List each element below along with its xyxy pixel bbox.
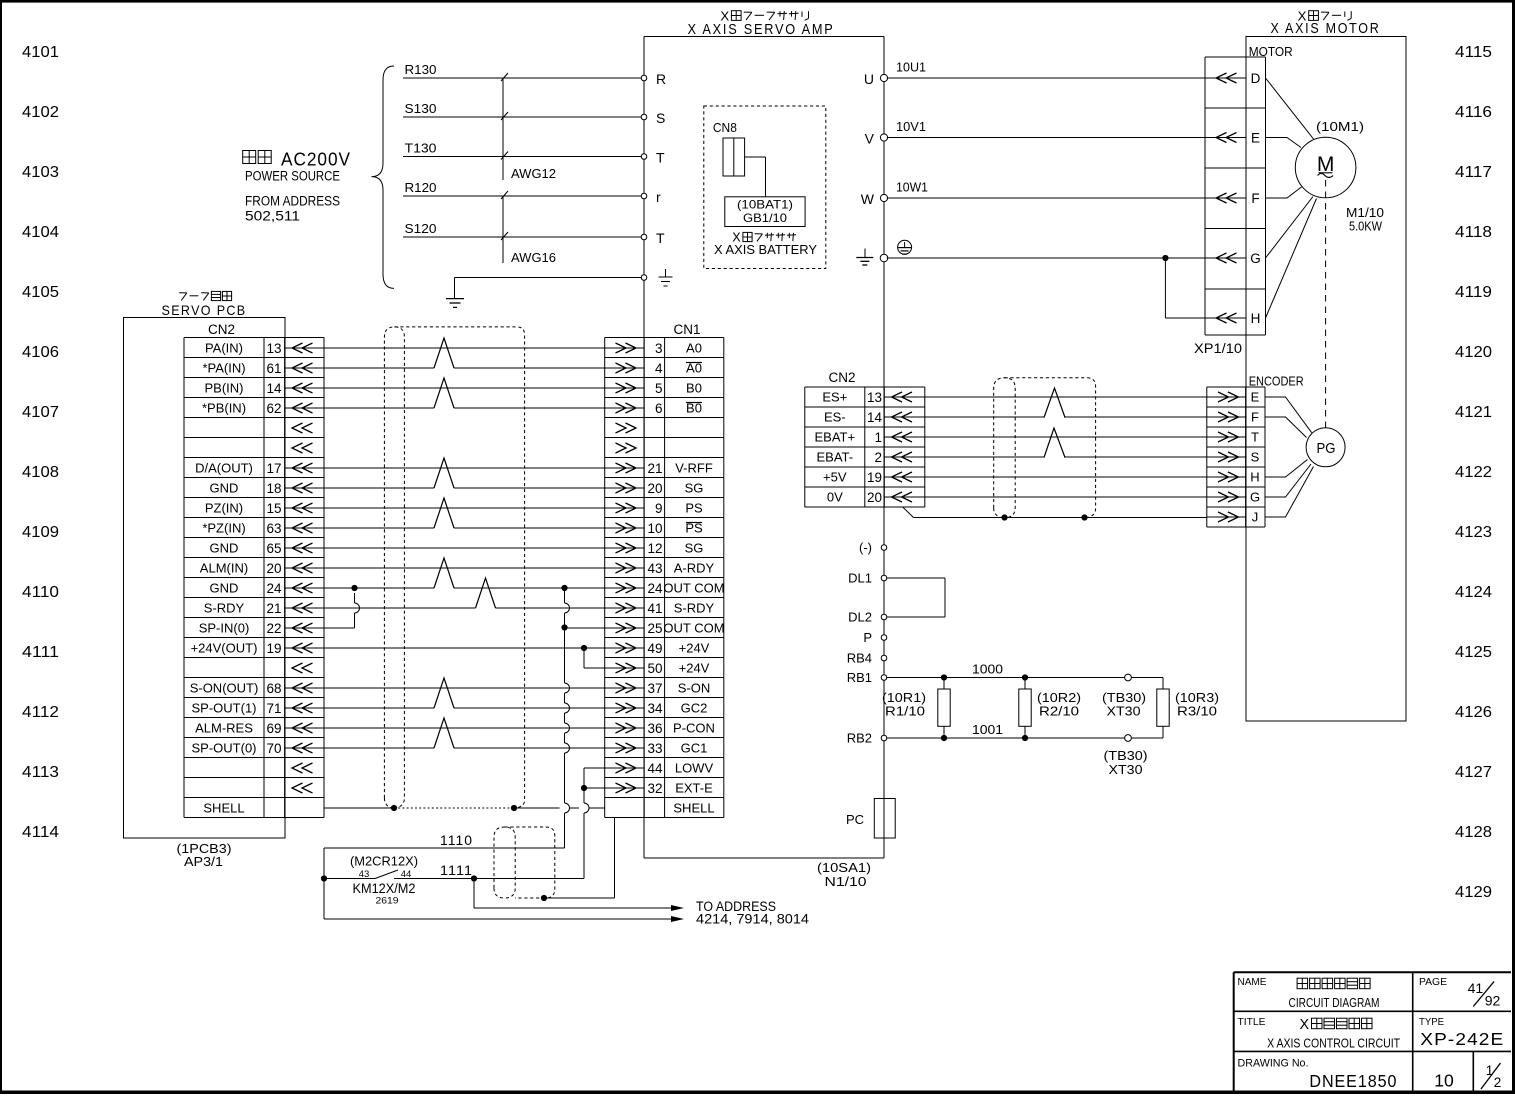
svg-text:21: 21 bbox=[647, 461, 662, 476]
svg-text:20: 20 bbox=[867, 490, 882, 505]
dashed shaft M to PG bbox=[1325, 180, 1327, 428]
terminal P bbox=[863, 630, 886, 645]
svg-text:1111: 1111 bbox=[440, 862, 473, 878]
svg-text:(10SA1): (10SA1) bbox=[817, 860, 871, 875]
svg-text:18: 18 bbox=[266, 481, 281, 496]
svg-text:21: 21 bbox=[266, 601, 281, 616]
svg-text:65: 65 bbox=[266, 541, 281, 556]
svg-text:r: r bbox=[656, 189, 661, 205]
label (10R2) R2/10 bbox=[1037, 691, 1081, 719]
svg-text:GND: GND bbox=[210, 481, 239, 496]
svg-text:34: 34 bbox=[647, 701, 663, 716]
svg-text:U: U bbox=[864, 71, 874, 87]
svg-text:P-CON: P-CON bbox=[673, 721, 715, 736]
svg-text:5: 5 bbox=[655, 381, 663, 396]
label X axis motor (JP) bbox=[1298, 8, 1352, 23]
svg-text:4103: 4103 bbox=[22, 164, 59, 181]
svg-text:S: S bbox=[1251, 450, 1260, 465]
wire SHELL net bbox=[324, 805, 605, 811]
svg-text:4114: 4114 bbox=[22, 824, 59, 841]
svg-text:SP-IN(0): SP-IN(0) bbox=[199, 621, 250, 636]
svg-text:4104: 4104 bbox=[22, 224, 59, 241]
terminal RB2 bbox=[847, 731, 887, 746]
svg-text:17: 17 bbox=[266, 461, 281, 476]
label N1/10 bbox=[825, 874, 867, 889]
svg-text:4122: 4122 bbox=[1455, 464, 1492, 481]
twisted pair marks encoder bbox=[1044, 388, 1065, 458]
svg-text:10: 10 bbox=[1434, 1071, 1454, 1091]
svg-text:4124: 4124 bbox=[1455, 584, 1492, 601]
svg-text:36: 36 bbox=[647, 721, 662, 736]
svg-text:LOWV: LOWV bbox=[675, 761, 714, 776]
connector CN1 row labels and arrows bbox=[605, 341, 725, 816]
right grid line numbers 4115-4129 bbox=[1455, 44, 1492, 901]
label CN2 left bbox=[208, 322, 235, 337]
svg-text:S-ON(OUT): S-ON(OUT) bbox=[190, 681, 259, 696]
svg-text:SP-OUT(1): SP-OUT(1) bbox=[192, 701, 257, 716]
svg-text:(M2CR12X): (M2CR12X) bbox=[350, 854, 418, 869]
svg-text:25: 25 bbox=[647, 621, 662, 636]
svg-text:4125: 4125 bbox=[1455, 644, 1492, 661]
svg-text:4120: 4120 bbox=[1455, 344, 1492, 361]
svg-text:X: X bbox=[1299, 1017, 1309, 1033]
brace power source group bbox=[372, 66, 395, 288]
svg-text:T130: T130 bbox=[405, 141, 437, 156]
svg-text:PA(IN): PA(IN) bbox=[205, 341, 243, 356]
svg-text:10V1: 10V1 bbox=[896, 119, 926, 134]
wire W 10W1 bbox=[861, 180, 1205, 208]
label CN2 right bbox=[829, 370, 856, 385]
svg-text:4116: 4116 bbox=[1455, 104, 1492, 121]
label KM12X/M2 bbox=[353, 881, 416, 896]
svg-text:4128: 4128 bbox=[1455, 824, 1492, 841]
ground symbol amp right bbox=[856, 249, 873, 266]
svg-text:PC: PC bbox=[846, 812, 864, 827]
svg-text:XP1/10: XP1/10 bbox=[1194, 341, 1242, 356]
svg-text:20: 20 bbox=[647, 481, 662, 496]
label 電気回路線図 bbox=[1297, 978, 1370, 989]
svg-text:41: 41 bbox=[647, 601, 662, 616]
svg-text:E: E bbox=[1251, 390, 1260, 405]
svg-text:EBAT-: EBAT- bbox=[816, 450, 853, 465]
label (10M1) bbox=[1316, 119, 1364, 134]
wire U 10U1 bbox=[864, 60, 1205, 88]
svg-text:CN2: CN2 bbox=[829, 370, 856, 385]
svg-text:22: 22 bbox=[266, 621, 281, 636]
svg-text:*PB(IN): *PB(IN) bbox=[202, 401, 246, 416]
svg-text:1: 1 bbox=[874, 430, 882, 445]
terminal T2 bbox=[641, 230, 665, 246]
svg-text:R130: R130 bbox=[405, 62, 437, 77]
label XP1/10 bbox=[1194, 341, 1242, 356]
connector CN1 table grid bbox=[605, 338, 724, 818]
svg-text:41: 41 bbox=[1468, 980, 1484, 996]
terminal XT30 lower bbox=[1104, 735, 1148, 777]
label X軸バッテリ bbox=[732, 231, 796, 245]
svg-text:CN2: CN2 bbox=[208, 322, 235, 337]
left grid line numbers 4101-4114 bbox=[22, 44, 59, 841]
svg-text:+24V: +24V bbox=[679, 641, 710, 656]
svg-text:G: G bbox=[1250, 490, 1260, 505]
svg-text:3: 3 bbox=[655, 341, 663, 356]
label X AXIS CONTROL CIRCUIT bbox=[1267, 1036, 1400, 1051]
label page 41/92 bbox=[1468, 980, 1501, 1009]
svg-text:F: F bbox=[1251, 191, 1259, 206]
svg-text:20: 20 bbox=[266, 561, 281, 576]
svg-text:T: T bbox=[656, 230, 665, 246]
label FROM ADDRESS bbox=[245, 194, 340, 209]
svg-text:AWG16: AWG16 bbox=[511, 250, 556, 265]
terminal R bbox=[641, 71, 666, 87]
svg-text:24: 24 bbox=[266, 581, 282, 596]
svg-text:4112: 4112 bbox=[22, 704, 59, 721]
svg-text:R3/10: R3/10 bbox=[1177, 705, 1217, 719]
terminal PE bbox=[641, 275, 647, 281]
svg-text:4108: 4108 bbox=[22, 464, 59, 481]
svg-text:+24V(OUT): +24V(OUT) bbox=[191, 641, 258, 656]
svg-text:49: 49 bbox=[647, 641, 662, 656]
svg-text:4214, 7914, 8014: 4214, 7914, 8014 bbox=[696, 912, 810, 927]
svg-text:4105: 4105 bbox=[22, 284, 59, 301]
svg-text:+5V: +5V bbox=[823, 470, 847, 485]
svg-text:2: 2 bbox=[1494, 1075, 1502, 1090]
svg-text:S-RDY: S-RDY bbox=[674, 601, 715, 616]
resistor R2 bbox=[1019, 674, 1031, 741]
label (10R3) R3/10 bbox=[1175, 691, 1219, 719]
earth ground symbol bbox=[446, 299, 464, 308]
svg-text:S-RDY: S-RDY bbox=[204, 601, 245, 616]
wire 1110 bbox=[324, 832, 565, 848]
svg-text:37: 37 bbox=[647, 681, 662, 696]
svg-text:RB2: RB2 bbox=[847, 731, 872, 746]
title block grid bbox=[1234, 972, 1511, 1091]
svg-text:DRAWING No.: DRAWING No. bbox=[1238, 1058, 1309, 1070]
svg-text:1110: 1110 bbox=[440, 832, 473, 848]
label XP-242E bbox=[1420, 1029, 1504, 1049]
svg-text:PS: PS bbox=[685, 501, 703, 516]
AWG12 cable tick bbox=[501, 73, 556, 181]
svg-text:(10R1): (10R1) bbox=[882, 691, 926, 705]
svg-text:EBAT+: EBAT+ bbox=[815, 430, 856, 445]
label 1/2 bbox=[1481, 1063, 1501, 1090]
svg-text:1000: 1000 bbox=[972, 662, 1003, 677]
wire CN8 to battery bbox=[745, 157, 766, 197]
label (M2CR12X) bbox=[350, 854, 418, 869]
svg-text:TITLE: TITLE bbox=[1238, 1017, 1266, 1028]
label X軸制御回路 bbox=[1299, 1017, 1372, 1033]
shield left cable (dotted) bbox=[384, 327, 524, 808]
svg-text:4101: 4101 bbox=[22, 44, 59, 61]
svg-text:EXT-E: EXT-E bbox=[675, 781, 713, 796]
resistor R1 bbox=[938, 674, 950, 741]
svg-text:X AXIS BATTERY: X AXIS BATTERY bbox=[714, 242, 817, 257]
svg-text:4115: 4115 bbox=[1455, 44, 1492, 61]
wires CN2 to encoder bbox=[925, 397, 1207, 497]
resistor R3 bbox=[1157, 678, 1169, 739]
connector encoder plug bbox=[1207, 387, 1265, 527]
label DNEE1850 bbox=[1309, 1071, 1397, 1091]
svg-text:4121: 4121 bbox=[1455, 404, 1492, 421]
svg-text:A-RDY: A-RDY bbox=[674, 561, 715, 576]
svg-text:4109: 4109 bbox=[22, 524, 59, 541]
svg-text:W: W bbox=[861, 191, 875, 207]
svg-text:12: 12 bbox=[647, 541, 662, 556]
svg-text:OUT COM: OUT COM bbox=[663, 581, 724, 596]
border frame left bar bbox=[0, 0, 2, 1094]
wire +24V 49-50 branch bbox=[581, 645, 605, 668]
svg-text:AC200V: AC200V bbox=[281, 149, 351, 169]
wire PE to earth bbox=[455, 278, 642, 299]
label NAME bbox=[1238, 977, 1267, 988]
svg-text:X AXIS MOTOR: X AXIS MOTOR bbox=[1271, 21, 1381, 37]
label X AXIS BATTERY bbox=[714, 242, 817, 257]
svg-text:T: T bbox=[1251, 430, 1259, 445]
label CN8 bbox=[713, 120, 737, 135]
svg-text:GND: GND bbox=[210, 581, 239, 596]
ground symbol at amp PE terminal bbox=[659, 269, 673, 286]
label TO ADDRESS bbox=[696, 899, 776, 914]
svg-text:KM12X/M2: KM12X/M2 bbox=[353, 881, 416, 896]
svg-text:*PZ(IN): *PZ(IN) bbox=[202, 521, 245, 536]
svg-text:RB4: RB4 bbox=[847, 651, 872, 666]
svg-text:4127: 4127 bbox=[1455, 764, 1492, 781]
svg-text:S-ON: S-ON bbox=[678, 681, 711, 696]
svg-text:4129: 4129 bbox=[1455, 884, 1492, 901]
svg-text:4117: 4117 bbox=[1455, 164, 1492, 181]
svg-text:D: D bbox=[1251, 71, 1261, 86]
svg-text:AWG12: AWG12 bbox=[511, 166, 556, 181]
motor enclosure box bbox=[1246, 37, 1406, 722]
svg-text:61: 61 bbox=[266, 361, 281, 376]
label CN1 bbox=[674, 322, 701, 337]
svg-text:502,511: 502,511 bbox=[245, 209, 300, 224]
svg-text:(10R2): (10R2) bbox=[1037, 691, 1081, 705]
terminal r bbox=[641, 189, 661, 205]
svg-text:70: 70 bbox=[266, 741, 281, 756]
servo amp enclosure box bbox=[644, 37, 884, 859]
svg-text:14: 14 bbox=[867, 410, 883, 425]
connector CN2 row labels and arrows bbox=[190, 341, 324, 816]
svg-text:P: P bbox=[863, 630, 872, 645]
svg-text:9: 9 bbox=[655, 501, 663, 516]
wire RB1 bus bbox=[887, 662, 1163, 678]
label AP3/1 bbox=[184, 854, 223, 869]
svg-text:43: 43 bbox=[359, 869, 370, 880]
svg-text:B0: B0 bbox=[686, 381, 702, 396]
svg-text:19: 19 bbox=[266, 641, 281, 656]
wire to address 2 bbox=[324, 916, 684, 922]
wire PE to motor G bbox=[880, 254, 1205, 318]
svg-text:SHELL: SHELL bbox=[203, 801, 244, 816]
svg-text:AP3/1: AP3/1 bbox=[184, 854, 223, 869]
svg-text:43: 43 bbox=[647, 561, 662, 576]
wire shield to CN1 shell bbox=[541, 818, 615, 902]
twisted pair marks bbox=[434, 338, 496, 748]
label TITLE bbox=[1238, 1017, 1266, 1028]
AWG16 cable tick bbox=[501, 191, 556, 265]
svg-text:(TB30): (TB30) bbox=[1102, 691, 1146, 705]
connector CN8 plug bbox=[723, 138, 745, 176]
svg-text:GND: GND bbox=[210, 541, 239, 556]
svg-text:S120: S120 bbox=[405, 221, 437, 236]
terminal T bbox=[641, 150, 665, 166]
label (10R1) R1/10 bbox=[882, 691, 926, 719]
svg-text:GC2: GC2 bbox=[681, 701, 708, 716]
svg-text:ES-: ES- bbox=[824, 410, 846, 425]
svg-text:XT30: XT30 bbox=[1109, 763, 1143, 777]
svg-text:R: R bbox=[656, 71, 666, 87]
svg-text:X AXIS SERVO AMP: X AXIS SERVO AMP bbox=[688, 22, 835, 38]
connector CN2 right table bbox=[805, 387, 925, 507]
shield encoder cable (dotted) bbox=[994, 378, 1096, 518]
svg-text:PZ(IN): PZ(IN) bbox=[205, 501, 243, 516]
terminal (-) bbox=[859, 540, 887, 555]
svg-text:SP-OUT(0): SP-OUT(0) bbox=[192, 741, 257, 756]
vertical tie wire OUTCOM to 1110 bbox=[561, 585, 569, 848]
svg-text:24: 24 bbox=[647, 581, 663, 596]
svg-text:(TB30): (TB30) bbox=[1104, 749, 1148, 763]
svg-text:4119: 4119 bbox=[1455, 284, 1492, 301]
svg-text:(-): (-) bbox=[859, 540, 872, 555]
svg-text:44: 44 bbox=[647, 761, 663, 776]
svg-text:SG: SG bbox=[685, 541, 704, 556]
protective earth symbol circled bbox=[898, 240, 912, 254]
svg-text:15: 15 bbox=[266, 501, 281, 516]
svg-text:TYPE: TYPE bbox=[1419, 1017, 1444, 1028]
border frame right bar bbox=[1512, 0, 1515, 1094]
svg-text:V-RFF: V-RFF bbox=[675, 461, 713, 476]
svg-text:5.0KW: 5.0KW bbox=[1349, 219, 1383, 234]
svg-text:10U1: 10U1 bbox=[896, 60, 926, 75]
svg-text:*PA(IN): *PA(IN) bbox=[202, 361, 245, 376]
svg-text:H: H bbox=[1251, 311, 1261, 326]
wires encoder pins to PG bbox=[1265, 397, 1314, 517]
border frame top bar bbox=[0, 0, 1515, 3]
svg-text:CN1: CN1 bbox=[674, 322, 701, 337]
svg-text:69: 69 bbox=[266, 721, 281, 736]
border frame bottom bar bbox=[0, 1091, 1515, 1095]
svg-text:ENCODER: ENCODER bbox=[1249, 374, 1304, 389]
label ENCODER bbox=[1249, 374, 1304, 389]
encoder PG circle bbox=[1306, 428, 1345, 467]
svg-text:X AXIS CONTROL CIRCUIT: X AXIS CONTROL CIRCUIT bbox=[1267, 1036, 1400, 1051]
label (1PCB3) bbox=[177, 841, 232, 856]
jumper DL1-DL2 bbox=[887, 578, 945, 617]
svg-text:PAGE: PAGE bbox=[1419, 977, 1447, 988]
svg-text:50: 50 bbox=[647, 661, 662, 676]
svg-text:ES+: ES+ bbox=[822, 390, 847, 405]
svg-text:H: H bbox=[1250, 470, 1259, 485]
svg-text:XP-242E: XP-242E bbox=[1420, 1029, 1504, 1049]
svg-text:T: T bbox=[656, 150, 665, 166]
label SERVO PCB bbox=[162, 302, 247, 318]
svg-text:4102: 4102 bbox=[22, 104, 59, 121]
svg-text:6: 6 bbox=[655, 401, 663, 416]
svg-text:13: 13 bbox=[266, 341, 281, 356]
svg-text:19: 19 bbox=[867, 470, 882, 485]
terminal RB4 bbox=[847, 651, 887, 666]
svg-text:OUT COM: OUT COM bbox=[663, 621, 724, 636]
wire S130 bbox=[403, 101, 641, 117]
svg-text:SERVO PCB: SERVO PCB bbox=[162, 302, 247, 318]
label DRAWING No. bbox=[1238, 1058, 1309, 1070]
svg-text:SG: SG bbox=[685, 481, 704, 496]
motor M 10M1 bbox=[1295, 137, 1356, 198]
svg-text:XT30: XT30 bbox=[1107, 705, 1141, 719]
svg-text:S: S bbox=[656, 110, 665, 126]
label CIRCUIT DIAGRAM bbox=[1289, 995, 1380, 1010]
svg-text:F: F bbox=[1251, 410, 1259, 425]
svg-text:+24V: +24V bbox=[679, 661, 710, 676]
label AC200V bbox=[281, 149, 351, 169]
label M1/10 bbox=[1346, 205, 1384, 220]
svg-text:DL2: DL2 bbox=[848, 610, 872, 625]
svg-text:4118: 4118 bbox=[1455, 224, 1492, 241]
terminal S bbox=[641, 110, 665, 126]
label PAGE bbox=[1419, 977, 1447, 988]
label 5.0KW bbox=[1349, 219, 1383, 234]
battery GB1/10 box bbox=[725, 197, 805, 227]
label TYPE bbox=[1419, 1017, 1444, 1028]
battery dotted enclosure bbox=[704, 106, 826, 269]
junction 1110 corner bbox=[321, 848, 327, 919]
svg-text:71: 71 bbox=[266, 701, 281, 716]
connector CN2 table grid (servo pcb) bbox=[184, 338, 324, 818]
svg-text:G: G bbox=[1250, 251, 1261, 266]
label POWER SOURCE bbox=[245, 169, 340, 184]
svg-text:4: 4 bbox=[655, 361, 663, 376]
svg-text:4110: 4110 bbox=[22, 584, 59, 601]
svg-text:4126: 4126 bbox=[1455, 704, 1492, 721]
label 2619 bbox=[376, 896, 399, 907]
svg-text:33: 33 bbox=[647, 741, 662, 756]
svg-text:R1/10: R1/10 bbox=[885, 705, 925, 719]
svg-text:PG: PG bbox=[1317, 440, 1336, 457]
svg-text:1001: 1001 bbox=[972, 722, 1003, 737]
svg-text:D/A(OUT): D/A(OUT) bbox=[195, 461, 253, 476]
svg-text:4111: 4111 bbox=[22, 644, 59, 661]
svg-text:S130: S130 bbox=[405, 101, 437, 116]
label X AXIS SERVO AMP bbox=[688, 22, 835, 38]
svg-text:13: 13 bbox=[867, 390, 882, 405]
svg-text:0V: 0V bbox=[827, 490, 843, 505]
svg-text:2: 2 bbox=[874, 450, 882, 465]
svg-text:(10BAT1): (10BAT1) bbox=[737, 198, 793, 212]
label 502,511 bbox=[245, 209, 300, 224]
svg-text:GB1/10: GB1/10 bbox=[743, 211, 787, 225]
terminal DL1 bbox=[848, 571, 887, 586]
wire 1111 bbox=[440, 862, 584, 882]
svg-text:68: 68 bbox=[266, 681, 281, 696]
wire J shield drain bbox=[903, 507, 1207, 520]
svg-text:2619: 2619 bbox=[376, 896, 399, 907]
svg-text:44: 44 bbox=[401, 869, 412, 880]
svg-text:1: 1 bbox=[1486, 1063, 1494, 1078]
label サーボ基板 bbox=[179, 291, 231, 300]
wire OUT COM 25 branch bbox=[561, 624, 604, 630]
wire V 10V1 bbox=[865, 119, 1205, 147]
contact KM12X/M2 43-44 bbox=[324, 869, 474, 880]
wire R120 bbox=[403, 180, 641, 196]
servo pcb box AP3/1 bbox=[124, 318, 286, 839]
terminal DL2 bbox=[848, 610, 887, 625]
svg-text:4123: 4123 bbox=[1455, 524, 1492, 541]
connector XP1/10 motor plug bbox=[1205, 57, 1266, 335]
svg-text:POWER SOURCE: POWER SOURCE bbox=[245, 169, 340, 184]
svg-text:DL1: DL1 bbox=[848, 571, 872, 586]
svg-text:GC1: GC1 bbox=[681, 741, 708, 756]
svg-text:R2/10: R2/10 bbox=[1039, 705, 1079, 719]
